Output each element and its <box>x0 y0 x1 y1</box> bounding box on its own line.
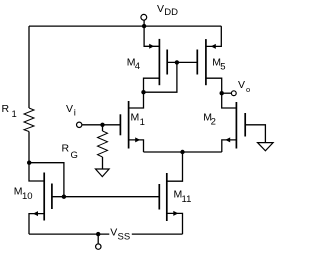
svg-text:DD: DD <box>164 7 178 18</box>
svg-text:1: 1 <box>140 117 145 128</box>
svg-text:V: V <box>238 79 245 91</box>
svg-text:1: 1 <box>12 109 17 120</box>
svg-text:V: V <box>66 103 73 115</box>
svg-text:V: V <box>157 3 164 15</box>
svg-text:SS: SS <box>118 231 131 242</box>
svg-text:R: R <box>62 143 70 155</box>
svg-text:4: 4 <box>135 61 140 72</box>
svg-text:V: V <box>110 227 117 239</box>
svg-text:2: 2 <box>211 116 216 127</box>
svg-text:R: R <box>2 103 10 115</box>
svg-text:10: 10 <box>22 191 33 202</box>
svg-text:G: G <box>71 150 78 161</box>
svg-text:o: o <box>246 85 250 94</box>
svg-text:i: i <box>74 108 76 119</box>
svg-text:5: 5 <box>220 62 225 73</box>
svg-text:M: M <box>131 112 140 124</box>
svg-text:11: 11 <box>182 194 192 205</box>
